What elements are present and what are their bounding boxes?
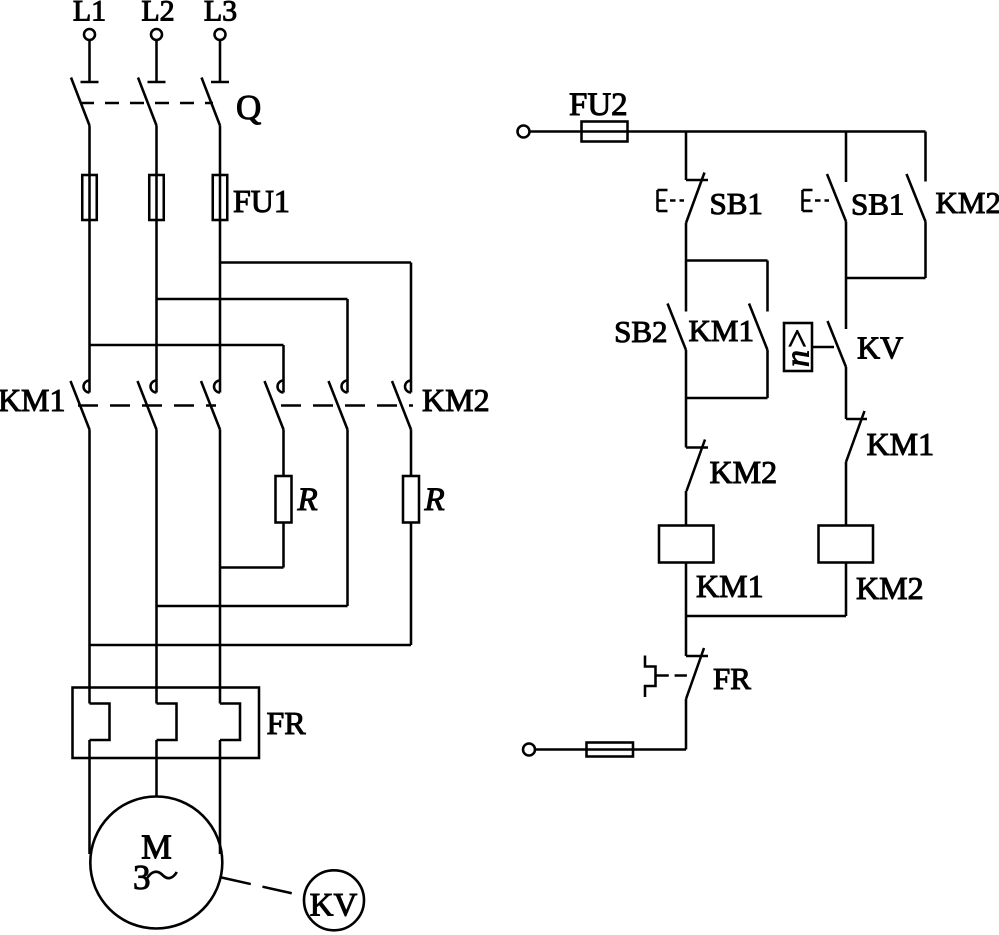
svg-text:KV: KV: [310, 888, 358, 924]
svg-text:KM2: KM2: [422, 382, 490, 418]
svg-text:KM2: KM2: [936, 185, 999, 220]
svg-text:FR: FR: [267, 705, 307, 741]
svg-text:KV: KV: [857, 330, 903, 366]
svg-text:SB1: SB1: [851, 187, 904, 222]
svg-text:KM2: KM2: [710, 454, 778, 490]
svg-text:R: R: [297, 482, 318, 518]
svg-text:SB2: SB2: [614, 314, 667, 349]
svg-text:FR: FR: [713, 661, 751, 696]
svg-text:n>: n>: [780, 327, 817, 367]
svg-text:R: R: [424, 482, 445, 518]
svg-text:KM1: KM1: [867, 426, 935, 462]
svg-text:KM1: KM1: [689, 313, 754, 348]
svg-text:KM2: KM2: [856, 570, 924, 606]
svg-text:FU1: FU1: [233, 183, 290, 219]
svg-text:L2: L2: [141, 0, 174, 28]
svg-text:L3: L3: [204, 0, 237, 28]
svg-text:KM1: KM1: [0, 382, 66, 418]
svg-text:Q: Q: [236, 88, 261, 127]
svg-text:L1: L1: [73, 0, 106, 28]
svg-text:FU2: FU2: [569, 87, 628, 123]
svg-text:KM1: KM1: [696, 568, 764, 604]
svg-text:SB1: SB1: [710, 186, 763, 221]
